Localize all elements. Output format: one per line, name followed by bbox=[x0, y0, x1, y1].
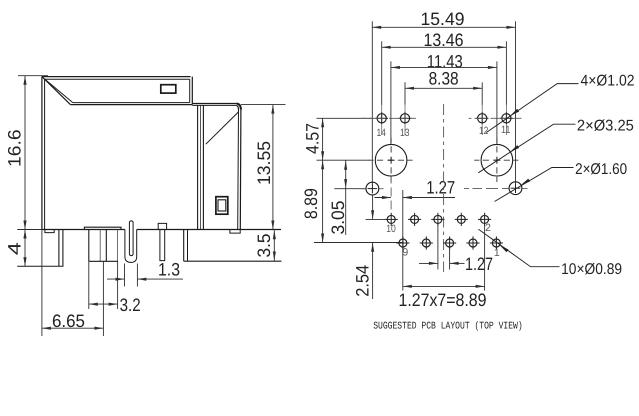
big mounting hole (2x dia3.25) bbox=[481, 144, 513, 176]
dim 1.27 left arrow bbox=[375, 197, 391, 199]
rear block window outer bbox=[216, 197, 228, 215]
post cap bbox=[84, 227, 121, 229]
svg-text:6.65: 6.65 bbox=[52, 311, 85, 331]
dim 3.2 ext lines below post bbox=[88, 261, 90, 309]
body left edge outer bbox=[41, 77, 43, 230]
body/rear boundary vertical 2 bbox=[200, 105, 202, 229]
post bottom line bbox=[89, 260, 118, 262]
chamfer outer diagonal bbox=[42, 77, 71, 105]
pin hole 11 (4x dia1.02) bbox=[502, 114, 511, 123]
svg-text:4×Ø1.02: 4×Ø1.02 bbox=[581, 73, 635, 90]
svg-text:2×Ø1.60: 2×Ø1.60 bbox=[575, 161, 627, 178]
dim 1.27 right arrow/tail bbox=[403, 197, 455, 199]
dim line 4.57 bbox=[322, 118, 324, 160]
centerline through pins 12,11 bbox=[469, 117, 522, 119]
svg-text:1.27x7=8.89: 1.27x7=8.89 bbox=[399, 290, 487, 310]
dim line 3.2 bbox=[89, 303, 118, 305]
body/rear boundary vertical 1 bbox=[197, 105, 199, 229]
ext line right big-hole column (11.43) bbox=[496, 61, 498, 144]
svg-text:13.46: 13.46 bbox=[424, 30, 464, 50]
top band bottom outer line bbox=[70, 104, 192, 106]
ext line pin6 column bbox=[437, 224, 439, 270]
centerline left of right small hole bbox=[464, 187, 509, 189]
pin hole 13 (4x dia1.02) bbox=[400, 114, 409, 123]
body left edge inner bbox=[44, 79, 46, 229]
svg-text:8.89: 8.89 bbox=[301, 188, 321, 219]
hairpin outer slot bbox=[125, 230, 137, 263]
left foot right edge bbox=[62, 230, 64, 267]
ext line left mounting-hole column (15.49) bbox=[371, 21, 373, 184]
dim line 16.6 and 4 bbox=[24, 76, 26, 267]
centerline through pins 14,13 bbox=[362, 117, 420, 119]
svg-text:2×Ø3.25: 2×Ø3.25 bbox=[577, 118, 634, 135]
svg-text:11: 11 bbox=[501, 124, 511, 136]
leader 2x dia3.25 bbox=[478, 124, 575, 173]
dim line 8.89 bbox=[322, 160, 324, 242]
rear block top outer line bbox=[192, 103, 236, 105]
rear flange bottom line bbox=[184, 260, 282, 262]
ext line row of big holes bbox=[317, 159, 370, 161]
post left edge bbox=[88, 230, 90, 262]
ext line pin9 column bbox=[402, 190, 404, 291]
svg-text:2: 2 bbox=[485, 222, 491, 234]
svg-text:13: 13 bbox=[400, 127, 410, 139]
straight pin head bbox=[158, 223, 166, 229]
ext line right mounting-hole column (15.49) bbox=[515, 21, 517, 183]
svg-text:1: 1 bbox=[494, 247, 500, 259]
dim 1.3 ext lines bbox=[124, 264, 126, 287]
svg-text:8.38: 8.38 bbox=[429, 69, 459, 89]
body bottom line (left of hairpin) bbox=[42, 229, 125, 231]
right small mounting hole (2x dia1.60) bbox=[509, 182, 522, 195]
pin hole 4 (10x dia0.89) bbox=[457, 215, 465, 223]
pin hole 7 (10x dia0.89) bbox=[422, 239, 430, 247]
left foot left edge bbox=[58, 230, 60, 267]
top band bottom inner line bbox=[73, 102, 190, 104]
ext line pin5 column bbox=[449, 248, 451, 270]
ext stub at pin10 row bbox=[366, 218, 385, 220]
dim 13.46 bbox=[382, 46, 507, 48]
svg-text:3.2: 3.2 bbox=[120, 295, 141, 315]
dim ext line at body bottom (left) bbox=[17, 229, 42, 231]
svg-text:16.6: 16.6 bbox=[4, 129, 24, 167]
rear tab below flange top bbox=[230, 230, 240, 234]
pin hole 12 (4x dia1.02) bbox=[478, 114, 487, 123]
ext line pin2 column bbox=[484, 213, 486, 291]
ext line pin14 column (13.46) bbox=[381, 41, 383, 105]
dim 1.27 bottom right arrow/tail bbox=[450, 262, 465, 264]
body/rear boundary vertical 3 bbox=[202, 105, 204, 229]
vertical centerline (dash-dot) bbox=[443, 104, 445, 272]
pin hole 8 (10x dia0.89) bbox=[411, 215, 419, 223]
dim 2.54 upper arrow bbox=[372, 196, 374, 220]
svg-text:10: 10 bbox=[386, 223, 396, 235]
chamfer inner diagonal bbox=[45, 79, 73, 102]
terminal row line at pin9 row bbox=[314, 242, 403, 244]
svg-text:4: 4 bbox=[4, 242, 24, 255]
dim line 3.5 bbox=[273, 230, 275, 262]
dim 11.43 bbox=[391, 66, 497, 68]
rear block right edge outer bbox=[239, 110, 242, 230]
svg-text:1.27: 1.27 bbox=[465, 254, 493, 274]
foot bottom line / ext for dim 4 bbox=[17, 265, 63, 267]
ext line left big-hole column (11.43) bbox=[390, 61, 392, 144]
connector side view: top band outer top edge bbox=[42, 76, 191, 78]
dim 13.55 ext line bbox=[241, 104, 286, 106]
svg-text:14: 14 bbox=[376, 127, 386, 139]
leader 4x dia1.02 bbox=[486, 84, 578, 133]
dim 8.38 bbox=[405, 87, 482, 89]
post inner line 1 bbox=[99, 230, 101, 262]
leader 10x dia0.89 bbox=[479, 229, 560, 266]
dim 2.54 lower arrow/line bbox=[372, 243, 374, 299]
post right edge bbox=[117, 230, 119, 262]
centerline right of right small hole bbox=[522, 187, 527, 189]
ext line pin12 column (8.38) bbox=[481, 82, 483, 105]
pin hole 1 (10x dia0.89) bbox=[492, 239, 500, 247]
ext line pin13 column (8.38) bbox=[404, 82, 406, 105]
rear flange left edge outer bbox=[183, 230, 185, 262]
dim line 6.65 bbox=[42, 327, 104, 329]
dim 1.27 bottom left arrow bbox=[419, 262, 438, 264]
body bottom line (right of hairpin) bbox=[137, 229, 281, 231]
rear block right edge inner bbox=[237, 110, 240, 230]
dim 6.65 ext lines bbox=[41, 230, 43, 337]
svg-text:12: 12 bbox=[479, 125, 489, 137]
svg-text:15.49: 15.49 bbox=[421, 9, 465, 29]
hairpin inner wire bbox=[129, 221, 133, 256]
pin hole 5 (10x dia0.89) bbox=[446, 239, 454, 247]
leader 2x dia1.60 bbox=[495, 168, 574, 202]
rear block window inner bbox=[218, 200, 226, 211]
latch window on top band bbox=[161, 85, 176, 93]
ext stub at left small hole row (3.05) bbox=[334, 188, 366, 190]
left small mounting hole (2x dia1.60) bbox=[366, 182, 379, 195]
svg-text:SUGGESTED PCB LAYOUT (TOP VIEW: SUGGESTED PCB LAYOUT (TOP VIEW) bbox=[373, 320, 523, 332]
rear flange left edge inner bbox=[187, 230, 189, 262]
rear block diagonal bbox=[206, 112, 239, 144]
dim line 1.27x7=8.89 bbox=[403, 285, 485, 287]
pin hole 6 (10x dia0.89) bbox=[434, 215, 442, 223]
dim 16.6 extension line top bbox=[18, 75, 48, 77]
top band right edge inner bbox=[189, 79, 191, 102]
svg-text:10×Ø0.89: 10×Ø0.89 bbox=[561, 261, 622, 278]
svg-text:1.3: 1.3 bbox=[158, 259, 180, 279]
svg-text:13.55: 13.55 bbox=[254, 141, 274, 185]
rear block rounded top-right corner bbox=[237, 104, 241, 110]
svg-text:1.27: 1.27 bbox=[426, 177, 455, 197]
top band right edge outer bbox=[191, 77, 193, 105]
ext line row of top pins (4.57) bbox=[317, 117, 374, 119]
post inner line 2 bbox=[105, 230, 107, 262]
big mounting hole (2x dia3.25) bbox=[375, 144, 407, 176]
svg-text:2.54: 2.54 bbox=[352, 265, 372, 297]
pin hole 9 (10x dia0.89) bbox=[399, 239, 407, 247]
svg-text:9: 9 bbox=[402, 246, 408, 258]
small tab below body at left bbox=[45, 230, 54, 233]
pin hole 10 (10x dia0.89) bbox=[387, 215, 395, 223]
svg-text:3.05: 3.05 bbox=[328, 201, 348, 235]
dim 15.49 bbox=[372, 26, 515, 28]
dim line 1.3 right tail bbox=[137, 278, 183, 280]
pin hole 14 (4x dia1.02) bbox=[377, 114, 386, 123]
svg-text:3.5: 3.5 bbox=[254, 234, 274, 258]
dim line 13.55 bbox=[272, 105, 274, 230]
ext line pin11 column (13.46) bbox=[505, 41, 507, 105]
top band inner top edge bbox=[45, 78, 190, 80]
dim line 3.05 bbox=[345, 160, 347, 235]
svg-text:4.57: 4.57 bbox=[303, 123, 323, 154]
dim line 1.3 left tail bbox=[107, 278, 125, 280]
dash-dot from left big hole down to pin10 bbox=[390, 177, 392, 214]
rear block top inner line bbox=[192, 104, 236, 106]
straight pin body bbox=[160, 230, 165, 261]
pin hole 2 (10x dia0.89) bbox=[481, 215, 489, 223]
pin hole 3 (10x dia0.89) bbox=[469, 239, 477, 247]
